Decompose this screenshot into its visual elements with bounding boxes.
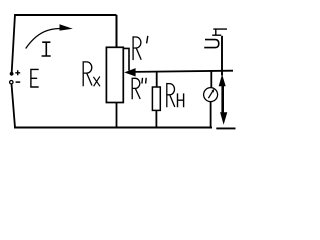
wire RH top [156, 71, 158, 87]
minus sign [16, 81, 21, 83]
voltage arrow up head [219, 74, 226, 86]
resistor RH box [152, 87, 160, 110]
stub wire from pot top-right corner down to wiper [123, 48, 130, 70]
wire top [14, 14, 116, 16]
wire pot top [116, 15, 118, 47]
wiper arrow head [124, 68, 135, 76]
wire left upper (to battery terminal) [12, 14, 15, 72]
key handle [212, 29, 227, 35]
wire RH bottom [155, 110, 157, 127]
key hook contact [204, 40, 219, 48]
galvanometer needle [208, 90, 213, 99]
bottom tick [216, 127, 235, 129]
label R' [133, 36, 148, 60]
voltage arrow stem [221, 85, 224, 114]
label E [30, 69, 39, 88]
wiper wire [135, 71, 234, 72]
wire galvanometer bottom [210, 102, 212, 128]
battery terminal dot (+) [10, 72, 14, 76]
current arrow head [60, 24, 73, 30]
wire to galvanometer [210, 71, 212, 88]
wire bottom [14, 127, 212, 129]
label Rx [83, 61, 100, 86]
label RH [167, 83, 184, 107]
wire pot bottom [116, 103, 118, 128]
label I [42, 42, 51, 56]
current arrow curve [26, 29, 60, 49]
voltage arrow down head [220, 112, 227, 125]
plus sign [15, 70, 20, 75]
label R'' [132, 78, 146, 100]
battery terminal circle (-) [10, 81, 13, 84]
key lever wire [221, 36, 223, 76]
galvanometer circle [204, 88, 218, 102]
wire left lower (battery to bottom) [12, 84, 16, 128]
potentiometer Rx box [106, 47, 123, 102]
